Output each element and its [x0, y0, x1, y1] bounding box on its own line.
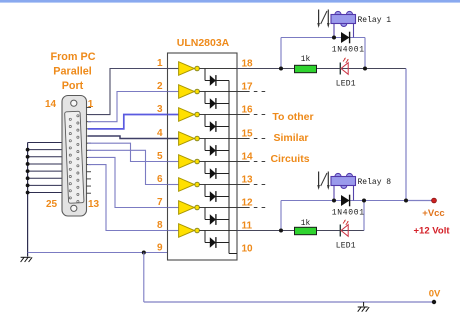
svg-text:15: 15 [242, 129, 254, 140]
svg-text:+12 Volt: +12 Volt [414, 226, 451, 237]
svg-text:13: 13 [242, 175, 254, 186]
svg-text:10: 10 [242, 244, 254, 255]
svg-text:7: 7 [157, 197, 163, 208]
svg-text:2: 2 [157, 81, 163, 92]
svg-text:4: 4 [157, 128, 163, 139]
svg-text:Parallel: Parallel [53, 66, 91, 78]
svg-text:11: 11 [242, 221, 253, 232]
svg-text:3: 3 [157, 104, 163, 115]
svg-text:9: 9 [157, 243, 163, 254]
svg-text:Similar: Similar [273, 132, 308, 144]
svg-text:1k: 1k [301, 55, 311, 64]
svg-text:Relay 1: Relay 1 [358, 16, 392, 25]
svg-text:LED1: LED1 [336, 241, 356, 250]
svg-text:12: 12 [242, 198, 254, 209]
svg-text:14: 14 [45, 99, 57, 110]
svg-text:Circuits: Circuits [270, 153, 309, 165]
svg-text:1: 1 [88, 99, 94, 110]
svg-text:6: 6 [157, 174, 163, 185]
svg-text:14: 14 [242, 152, 254, 163]
svg-text:16: 16 [242, 105, 254, 116]
svg-text:13: 13 [88, 199, 100, 210]
svg-text:LED1: LED1 [336, 79, 356, 88]
svg-text:18: 18 [242, 59, 254, 70]
svg-text:+Vcc: +Vcc [422, 208, 444, 219]
svg-text:1k: 1k [301, 219, 311, 228]
svg-text:Relay 8: Relay 8 [358, 178, 392, 187]
svg-text:1N4001: 1N4001 [332, 46, 365, 55]
svg-text:1N4001: 1N4001 [332, 209, 365, 218]
svg-text:Port: Port [62, 80, 84, 92]
svg-text:To other: To other [272, 111, 313, 123]
svg-text:0V: 0V [429, 289, 441, 300]
svg-text:From PC: From PC [51, 51, 96, 63]
svg-text:ULN2803A: ULN2803A [177, 37, 230, 49]
svg-text:8: 8 [157, 220, 163, 231]
svg-text:1: 1 [157, 58, 163, 69]
svg-text:5: 5 [157, 151, 163, 162]
svg-text:17: 17 [242, 82, 254, 93]
svg-text:25: 25 [46, 199, 58, 210]
